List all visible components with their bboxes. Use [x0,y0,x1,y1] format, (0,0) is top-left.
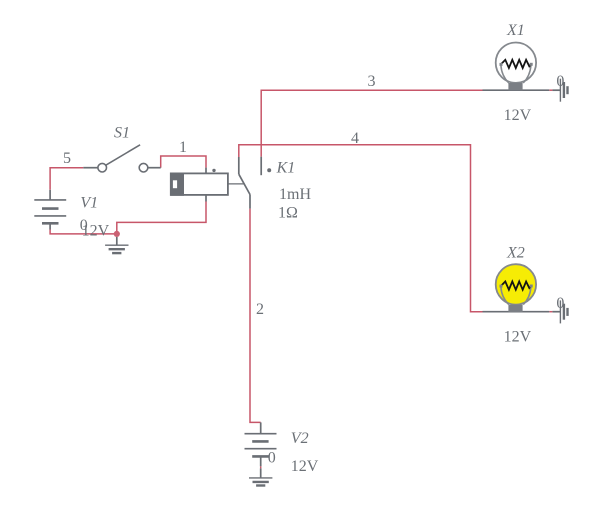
svg-text:1Ω: 1Ω [278,205,298,222]
svg-text:4: 4 [351,130,359,147]
svg-text:0: 0 [556,295,564,312]
svg-text:V2: V2 [291,430,309,447]
svg-text:5: 5 [63,150,71,167]
svg-text:S1: S1 [114,125,130,142]
svg-text:0: 0 [80,217,88,234]
svg-text:12V: 12V [504,107,532,124]
svg-text:X1: X1 [506,22,525,39]
svg-text:0: 0 [268,450,276,467]
svg-text:X2: X2 [506,245,525,262]
svg-text:3: 3 [368,73,376,90]
svg-text:1: 1 [179,139,187,156]
svg-text:12V: 12V [504,329,532,346]
svg-text:12V: 12V [291,458,319,475]
svg-text:2: 2 [256,301,264,318]
svg-text:V1: V1 [80,195,98,212]
svg-text:1mH: 1mH [279,186,311,203]
svg-text:0: 0 [556,73,564,90]
svg-text:K1: K1 [276,160,296,177]
